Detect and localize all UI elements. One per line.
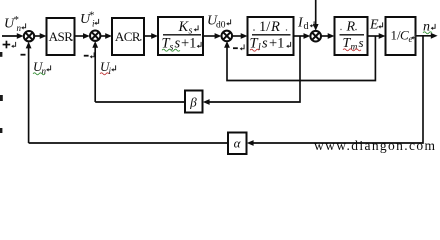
scan noise mark left edge 2: [0, 95, 3, 101]
fraction bar 1/R block: [252, 34, 291, 36]
wire: summer4 to R/Tms block: [321, 35, 330, 37]
block ASR: [47, 18, 75, 55]
arrowhead into beta box: [203, 99, 210, 105]
wire: summer1 to ASR: [34, 35, 41, 37]
spellcheck squiggle under Tms: [343, 49, 361, 51]
wire: alpha tap down from n output: [253, 36, 423, 143]
arrowhead into alpha box: [247, 140, 254, 146]
block 1/Ce: [386, 17, 416, 55]
arrowhead beta up into summer2: [92, 41, 98, 48]
wire: beta output across to below summer2: [95, 101, 185, 103]
block ACR: [112, 18, 144, 55]
svg-text:+1: +1: [181, 36, 196, 52]
spellcheck squiggle under Tl: [250, 49, 259, 51]
svg-text:R: R: [346, 20, 356, 35]
arrowhead into 1/R block: [241, 33, 248, 39]
block 1/R/(Tls+1): [248, 17, 294, 55]
svg-text:s: s: [262, 36, 268, 52]
svg-text:www.diangon.com: www.diangon.com: [314, 138, 435, 153]
summer4 circle: [310, 31, 321, 42]
wire: IdL disturbance drop into summer4: [315, 0, 317, 25]
wire: alpha output across to below summer1: [29, 142, 228, 144]
wire: input to first summer: [2, 35, 19, 37]
arrowhead alpha up into summer1: [26, 42, 32, 49]
arrowhead into ACR: [105, 33, 112, 39]
spellcheck squiggle under Un: [33, 73, 45, 75]
arrowhead IdL down into summer4: [313, 24, 319, 31]
svg-text:d: d: [304, 21, 309, 32]
svg-text:R: R: [270, 19, 280, 35]
svg-text:+1: +1: [269, 36, 284, 52]
arrowhead output n: [431, 33, 438, 39]
summer1 circle: [24, 31, 34, 41]
spellcheck squiggle under n: [423, 32, 432, 34]
spellcheck squiggle under Tss: [162, 49, 180, 51]
svg-text:l: l: [258, 42, 261, 53]
summer2 circle: [90, 31, 100, 41]
summer3 circle: [222, 31, 233, 42]
wire: output n: [416, 35, 433, 37]
block R/Tms: [335, 17, 368, 55]
fraction bar Ks block: [163, 34, 201, 36]
arrowhead into summer1: [17, 33, 24, 39]
scan noise mark left edge 3: [0, 128, 2, 133]
svg-text:α: α: [234, 136, 242, 151]
arrowhead into ASR: [40, 33, 47, 39]
wire: beta feedback rise into summer2: [94, 47, 96, 102]
scan noise mark left edge 1: [0, 52, 2, 57]
arrowhead into summer3: [215, 33, 222, 39]
wire: 1/R block to summer4 (Id node): [294, 35, 306, 37]
scan dot after ASR: [71, 39, 73, 41]
spellcheck squiggle under Ui: [100, 73, 109, 75]
fraction bar R/Tms block: [340, 34, 365, 36]
svg-text:d0: d0: [216, 21, 226, 31]
plus sign at summer1: [3, 44, 11, 46]
arrowhead into summer2: [83, 33, 90, 39]
svg-text:ACR: ACR: [115, 29, 141, 44]
wire: summer2 to ACR: [100, 35, 107, 37]
svg-text:β: β: [189, 95, 197, 110]
svg-text:E: E: [369, 18, 379, 33]
wire: alpha feedback rise into summer1: [28, 48, 30, 143]
scan dots around R: [355, 29, 357, 31]
minus sign at summer2: [84, 55, 89, 57]
arrowhead into summer4: [304, 33, 311, 39]
svg-text:1/: 1/: [259, 19, 271, 35]
arrowhead into 1/Ce block: [379, 33, 386, 39]
minus at summer3: [233, 47, 238, 49]
arrowhead E feedback up into summer3: [224, 41, 230, 48]
svg-text:n: n: [17, 23, 22, 33]
wire: Ks block to summer3 (Ud0 node): [203, 35, 217, 37]
wire: ASR to summer2: [75, 35, 85, 37]
svg-text:ASR: ASR: [49, 29, 74, 44]
svg-text:e: e: [409, 34, 413, 44]
wire: summer3 to 1/R block: [232, 35, 242, 37]
block Ks/(Tss+1): [158, 17, 203, 55]
wire: beta tap down from Id wire: [209, 36, 300, 102]
arrowhead into R/Tms block: [328, 33, 335, 39]
block alpha: [228, 133, 247, 155]
arrowhead into Ks block: [151, 33, 158, 39]
wire: E feedback tap down and across to summer3: [227, 36, 375, 81]
wire: R/Tms to 1/Ce (E node): [368, 35, 381, 37]
block beta: [185, 91, 203, 113]
svg-text:s: s: [359, 35, 364, 50]
scan dot after ACR: [140, 39, 142, 41]
wire: ACR to Ks block: [144, 35, 153, 37]
svg-text:i: i: [109, 66, 112, 76]
scan dots before 1/R: [253, 29, 255, 31]
minus sign at summer1: [21, 54, 26, 56]
